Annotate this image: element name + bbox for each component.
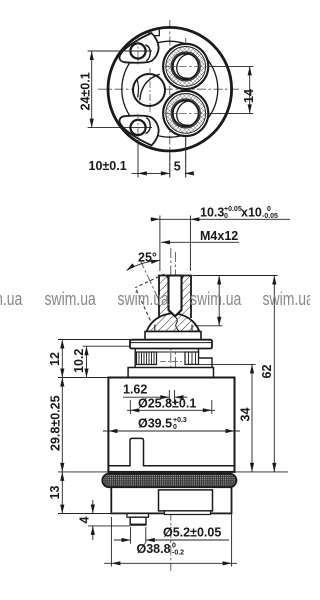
hidden stem dim: [193, 276, 278, 326]
DIM 1.62: [123, 382, 188, 404]
DIM Ø25.8±0.1: [127, 397, 215, 415]
svg-text:swim.ua: swim.ua: [45, 289, 97, 309]
knurled band: [102, 474, 236, 488]
svg-text:Ø25.8±0.1: Ø25.8±0.1: [138, 397, 196, 411]
centerline vertical top view main axis: [169, 20, 171, 178]
flange plate Ø25.8: [130, 340, 212, 349]
svg-text:25°: 25°: [138, 251, 157, 265]
lower inner block: [159, 490, 213, 511]
DIM Ø5.2±0.05: [114, 526, 229, 544]
slot hook bottom-left: [146, 118, 151, 134]
DIM 10±0.1 and 5: [89, 136, 194, 178]
screw hole circle top-left: [130, 43, 145, 58]
knurl block right: [185, 352, 199, 364]
rotated stem dashed outline: [135, 274, 164, 320]
inlet ring top: hatched annulus: [168, 49, 203, 84]
svg-text:5: 5: [174, 160, 181, 174]
svg-text:+0.3: +0.3: [173, 417, 187, 424]
svg-text:34: 34: [239, 408, 253, 422]
center mark step: [160, 361, 186, 363]
inlet ring bottom: outer: [163, 91, 208, 136]
TOP VIEW: [98, 20, 242, 178]
svg-text:-0.2: -0.2: [172, 550, 184, 557]
slot pad top-left: [120, 33, 159, 63]
svg-text:1.62: 1.62: [123, 382, 147, 396]
DIM 62: [235, 276, 288, 472]
knurl block left: [137, 352, 157, 365]
main body: [108, 378, 234, 472]
svg-text:29.8±0.25: 29.8±0.25: [49, 395, 63, 451]
DIM 4: [78, 500, 131, 540]
svg-text:10±0.1: 10±0.1: [89, 159, 127, 173]
central circle vertical centerline: [149, 68, 151, 112]
stem block hatched: [159, 276, 191, 315]
step disc A: [135, 349, 212, 368]
svg-text:0: 0: [173, 424, 177, 431]
svg-text:x10: x10: [241, 206, 262, 220]
svg-text:12: 12: [48, 352, 62, 366]
slot pad bottom-left: [120, 116, 159, 146]
top rim notch: [149, 29, 159, 36]
svg-text:14: 14: [242, 89, 256, 103]
watermark row: [0, 289, 315, 309]
inlet ring top crosshair: [163, 65, 209, 67]
hole chamfer: [166, 276, 168, 280]
inlet ring bottom: inner circle: [173, 100, 199, 126]
inlet top crescent: [177, 54, 189, 75]
svg-text:62: 62: [260, 365, 274, 379]
DIM 10.3x10: [151, 206, 291, 272]
dome hatched: [147, 313, 200, 331]
M4 tapped hole: [169, 276, 182, 317]
FRONT VIEW: [102, 248, 236, 571]
step disc B: [128, 368, 213, 378]
DIM 13: [48, 472, 127, 514]
break squiggle below drill point: [176, 317, 179, 336]
inlet ring bottom: hatched annulus: [168, 96, 203, 130]
inner circle: [122, 41, 218, 137]
svg-text:swim.ua: swim.ua: [117, 289, 169, 309]
centerline horizontal top view: [98, 88, 242, 90]
svg-text:swim.ua: swim.ua: [263, 289, 311, 309]
stem axis centerline: [174, 252, 176, 404]
neck: [145, 332, 201, 340]
DIM 14: [209, 66, 256, 113]
inlet bottom crescent: [177, 101, 189, 122]
outer circle: [108, 27, 232, 151]
ball collar opening edges: [154, 325, 156, 332]
svg-text:10.2: 10.2: [72, 349, 86, 373]
svg-text:4: 4: [78, 517, 92, 524]
screw hole centerlines: [137, 38, 139, 65]
tab profile line: [108, 438, 234, 465]
rotated stem axis 25deg: [141, 261, 174, 332]
bottom stub: [127, 514, 149, 518]
svg-text:Ø5.2±0.05: Ø5.2±0.05: [163, 526, 221, 540]
inlet ring top: inner circle: [173, 53, 199, 79]
svg-text:-0.05: -0.05: [262, 213, 278, 220]
DIM 12: [48, 340, 130, 378]
slot hook top-left: [146, 45, 151, 61]
svg-text:13: 13: [48, 486, 62, 500]
main centerline front: [170, 248, 172, 571]
svg-text:swim.ua: swim.ua: [0, 289, 23, 309]
DIM 29.8±0.25: [49, 378, 109, 472]
centerline vertical hole axis: [185, 38, 187, 178]
svg-text:Ø38.8: Ø38.8: [137, 542, 171, 556]
svg-text:0: 0: [224, 213, 228, 220]
central crescent: [140, 74, 160, 100]
DIM 10.2: [72, 346, 130, 377]
DIM 34: [196, 364, 256, 472]
svg-text:+0.05: +0.05: [224, 206, 242, 213]
DIM Ø39.5: [103, 417, 240, 434]
inlet ring bottom crosshair: [163, 112, 209, 114]
inlet ring top: outer: [163, 44, 208, 89]
svg-text:0: 0: [267, 206, 271, 213]
DIM Ø38.8: [104, 490, 237, 567]
svg-text:Ø39.5: Ø39.5: [138, 417, 172, 431]
svg-text:M4x12: M4x12: [200, 229, 238, 243]
lower body: [111, 487, 231, 513]
label M4x12: [161, 229, 239, 244]
svg-text:24±0.1: 24±0.1: [78, 72, 92, 110]
DIM 25 degrees: [125, 251, 160, 273]
svg-text:swim.ua: swim.ua: [190, 289, 242, 309]
svg-text:0: 0: [172, 543, 176, 550]
central stem circle: [133, 74, 165, 106]
screw hole circle bottom-left: [130, 120, 145, 135]
DIM 24±0.1: [78, 51, 152, 128]
svg-text:10.3: 10.3: [200, 206, 224, 220]
